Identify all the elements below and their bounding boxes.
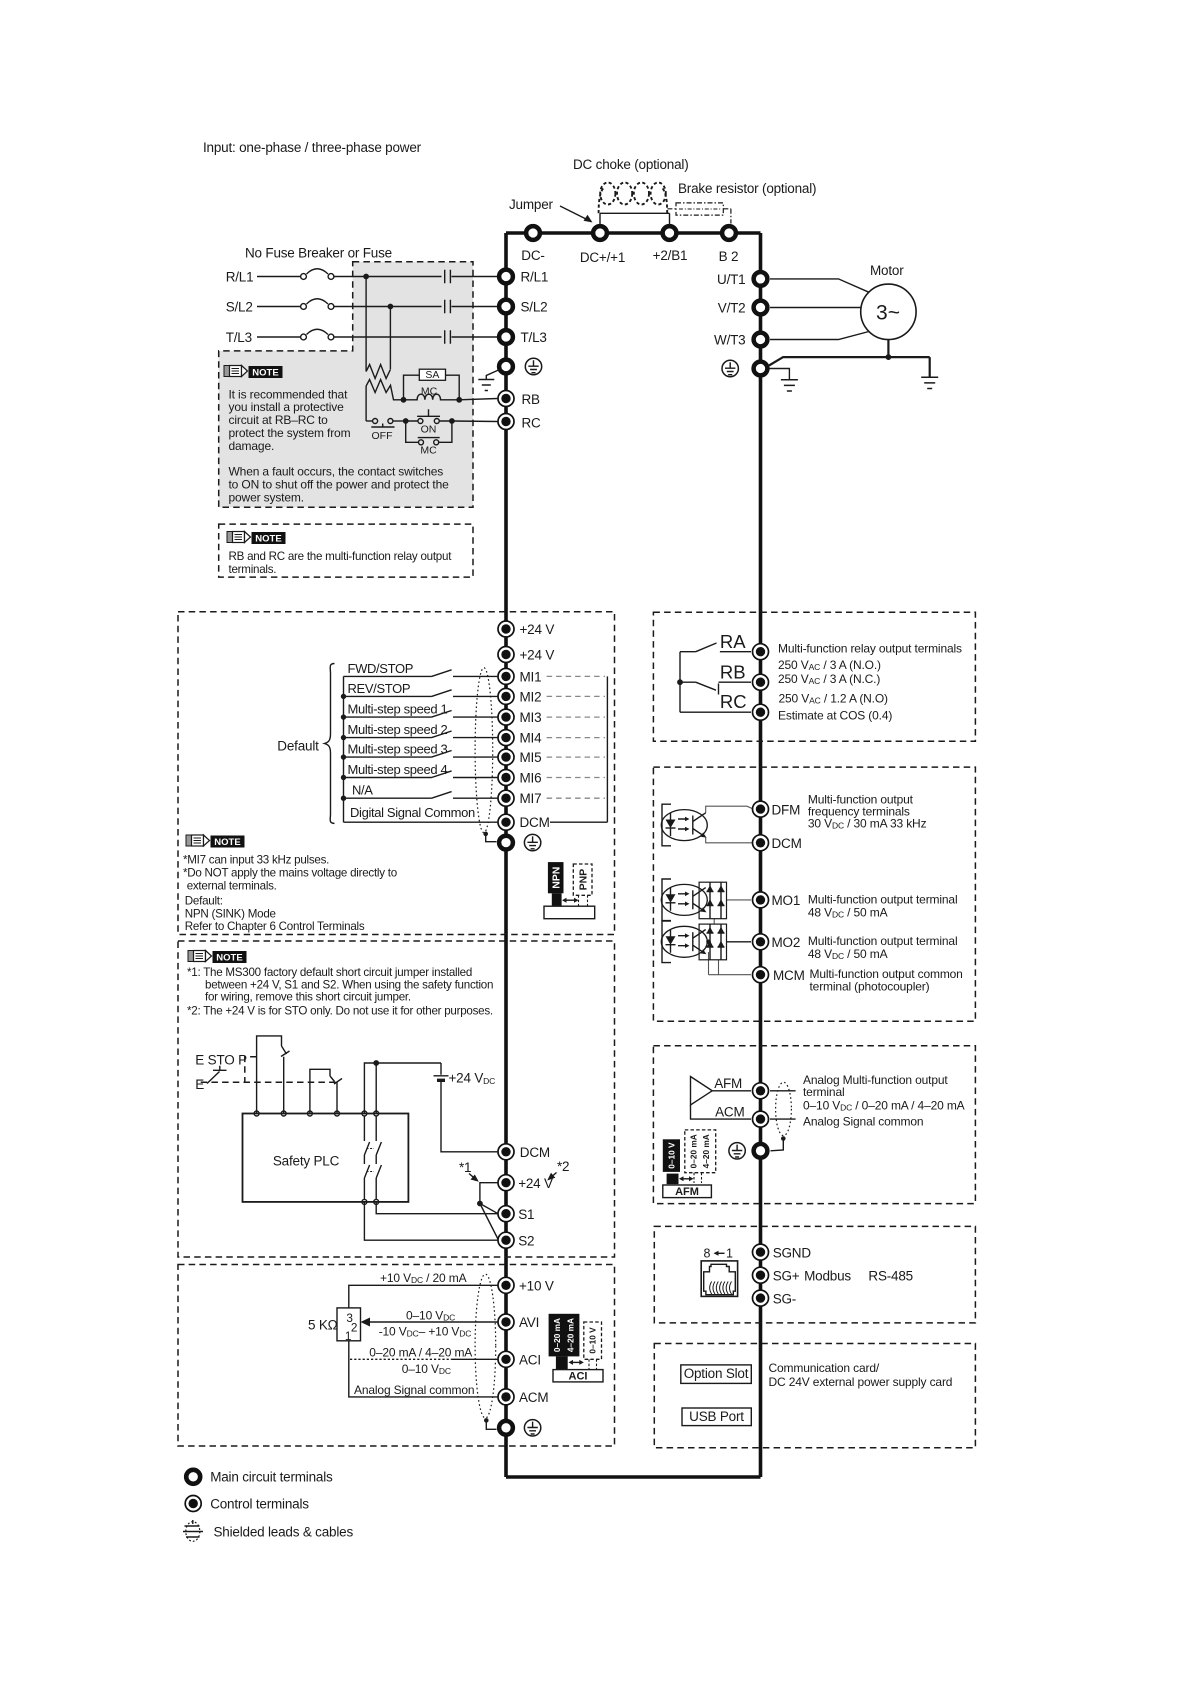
svg-text:T/L3: T/L3 [521, 330, 547, 345]
svg-text:Shielded leads & cables: Shielded leads & cables [214, 1525, 354, 1540]
svg-text:Multi-step speed 1: Multi-step speed 1 [348, 702, 448, 717]
svg-text:S2: S2 [518, 1234, 534, 1249]
svg-text:MO2: MO2 [772, 935, 801, 950]
svg-text:0–10 V: 0–10 V [666, 1142, 676, 1169]
svg-text:*MI7 can input 33 kHz pulses.: *MI7 can input 33 kHz pulses. [183, 854, 329, 867]
svg-text:Digital Signal Common: Digital Signal Common [350, 805, 475, 820]
svg-text:MI7: MI7 [520, 791, 542, 806]
svg-text:250 VAC / 3 A (N.O.): 250 VAC / 3 A (N.O.) [778, 658, 881, 672]
svg-text:NPN: NPN [550, 867, 562, 889]
svg-text:When a fault occurs, the conta: When a fault occurs, the contact switche… [229, 465, 444, 479]
svg-text:*1: The MS300 factory default: *1: The MS300 factory default short circ… [187, 966, 472, 979]
svg-text:terminal (photocoupler): terminal (photocoupler) [810, 980, 930, 994]
svg-text:MO1: MO1 [772, 893, 801, 908]
svg-text:0–10 VDC / 0–20 mA / 4–20 mA: 0–10 VDC / 0–20 mA / 4–20 mA [803, 1099, 965, 1113]
svg-text:RC: RC [522, 416, 542, 431]
svg-text:Brake resistor (optional): Brake resistor (optional) [678, 181, 816, 196]
svg-text:+2/B1: +2/B1 [653, 248, 688, 263]
svg-text:ACI: ACI [569, 1371, 588, 1383]
svg-text:MI1: MI1 [520, 669, 542, 684]
svg-text:DC+/+1: DC+/+1 [580, 250, 625, 265]
svg-text:circuit at RB–RC to: circuit at RB–RC to [229, 413, 329, 427]
svg-text:1: 1 [726, 1246, 733, 1260]
svg-text:Input: one-phase / three-phase: Input: one-phase / three-phase power [203, 140, 422, 155]
svg-text:NPN (SINK) Mode: NPN (SINK) Mode [185, 907, 276, 920]
svg-text:Control terminals: Control terminals [210, 1497, 309, 1512]
svg-text:ACM: ACM [715, 1105, 744, 1120]
svg-text:+24 V: +24 V [520, 648, 555, 663]
svg-text:30 VDC / 30 mA 33 kHz: 30 VDC / 30 mA 33 kHz [808, 817, 927, 831]
svg-text:*2: *2 [557, 1159, 569, 1174]
svg-text:MI2: MI2 [520, 689, 542, 704]
svg-text:AVI: AVI [519, 1315, 539, 1330]
svg-text:Communication card/: Communication card/ [769, 1361, 880, 1375]
svg-text:for wiring, remove this short: for wiring, remove this short circuit ju… [205, 991, 411, 1004]
svg-text:power system.: power system. [229, 491, 304, 505]
svg-text:RB: RB [522, 392, 541, 407]
svg-text:SG-: SG- [773, 1292, 796, 1307]
svg-text:Modbus: Modbus [804, 1269, 851, 1284]
svg-text:RS-485: RS-485 [868, 1269, 913, 1284]
svg-text:MC: MC [420, 445, 437, 457]
svg-text:REV/STOP: REV/STOP [348, 681, 411, 696]
svg-text:S/L2: S/L2 [226, 300, 253, 315]
svg-text:R/L1: R/L1 [226, 270, 254, 285]
svg-text:No Fuse Breaker or Fuse: No Fuse Breaker or Fuse [245, 246, 392, 261]
svg-text:48 VDC / 50 mA: 48 VDC / 50 mA [808, 947, 888, 961]
svg-text:Estimate at COS (0.4): Estimate at COS (0.4) [778, 709, 892, 723]
svg-text:RB and RC are the multi-functi: RB and RC are the multi-function relay o… [229, 550, 453, 563]
svg-text:DCM: DCM [520, 1145, 550, 1160]
svg-text:external terminals.: external terminals. [187, 879, 277, 892]
svg-text:Multi-function output terminal: Multi-function output terminal [808, 893, 958, 907]
svg-text:*Do NOT apply the mains voltag: *Do NOT apply the mains voltage directly… [183, 866, 397, 879]
svg-text:SG+: SG+ [773, 1269, 800, 1284]
svg-text:*1: *1 [459, 1160, 471, 1175]
svg-text:Motor: Motor [870, 263, 904, 278]
svg-text:V/T2: V/T2 [718, 301, 746, 316]
svg-text:Safety PLC: Safety PLC [273, 1154, 340, 1169]
svg-text:MCM: MCM [773, 968, 805, 983]
svg-text:4–20 mA: 4–20 mA [566, 1318, 576, 1352]
svg-text:T/L3: T/L3 [226, 330, 252, 345]
svg-text:to ON to shut off the power an: to ON to shut off the power and protect … [229, 478, 450, 492]
svg-text:you install a protective: you install a protective [229, 400, 345, 414]
svg-text:RC: RC [720, 691, 747, 712]
svg-text:DFM: DFM [772, 803, 801, 818]
svg-text:Jumper: Jumper [509, 197, 554, 212]
svg-text:Main circuit terminals: Main circuit terminals [210, 1470, 333, 1485]
svg-text:DCM: DCM [772, 836, 802, 851]
svg-text:Multi-step speed 4: Multi-step speed 4 [348, 762, 448, 777]
svg-text:Multi-function relay output te: Multi-function relay output terminals [778, 642, 962, 656]
svg-text:PNP: PNP [577, 869, 589, 891]
svg-text:0–20 mA / 4–20 mA: 0–20 mA / 4–20 mA [369, 1346, 472, 1360]
svg-text:0–20 mA: 0–20 mA [688, 1134, 698, 1168]
svg-text:48 VDC / 50 mA: 48 VDC / 50 mA [808, 906, 888, 920]
svg-text:SGND: SGND [773, 1246, 812, 1261]
svg-text:0–20 mA: 0–20 mA [552, 1318, 562, 1352]
svg-text:MI3: MI3 [520, 710, 542, 725]
svg-text:E: E [195, 1077, 204, 1092]
svg-text:Default: Default [277, 739, 319, 754]
svg-text:Multi-function output terminal: Multi-function output terminal [808, 934, 958, 948]
svg-text:5 KΩ: 5 KΩ [308, 1318, 338, 1333]
svg-text:250 VAC / 3 A (N.C.): 250 VAC / 3 A (N.C.) [778, 672, 880, 686]
svg-text:It is recommended that: It is recommended that [229, 387, 349, 401]
svg-text:USB Port: USB Port [689, 1409, 744, 1424]
svg-text:ACI: ACI [519, 1352, 541, 1367]
svg-text:+24 V: +24 V [518, 1176, 553, 1191]
svg-text:250 VAC / 1.2 A (N.O): 250 VAC / 1.2 A (N.O) [779, 692, 889, 706]
svg-text:+10 V: +10 V [519, 1279, 554, 1294]
svg-text:DCM: DCM [520, 815, 550, 830]
svg-text:RB: RB [720, 662, 746, 683]
svg-text:B 2: B 2 [719, 249, 739, 264]
svg-text:OFF: OFF [372, 430, 393, 442]
svg-text:Analog Signal common: Analog Signal common [803, 1115, 923, 1129]
svg-text:N/A: N/A [352, 783, 373, 798]
svg-text:*2: The +24 V is for STO only.: *2: The +24 V is for STO only. Do not us… [187, 1004, 493, 1017]
svg-text:E STO P: E STO P [195, 1053, 247, 1068]
svg-text:protect the system from: protect the system from [229, 426, 351, 440]
svg-text:R/L1: R/L1 [521, 270, 549, 285]
svg-text:+10 VDC / 20 mA: +10 VDC / 20 mA [380, 1271, 467, 1285]
svg-text:between +24 V, S1 and S2. When: between +24 V, S1 and S2. When using the… [205, 978, 493, 991]
svg-text:Analog Signal common: Analog Signal common [354, 1383, 474, 1397]
svg-text:-10 VDC– +10 VDC: -10 VDC– +10 VDC [379, 1325, 472, 1339]
svg-text:DC-: DC- [521, 248, 544, 263]
svg-text:1: 1 [345, 1329, 351, 1343]
svg-text:0–10 V: 0–10 V [588, 1327, 598, 1354]
svg-text:damage.: damage. [229, 439, 275, 453]
svg-text:Default:: Default: [185, 895, 223, 908]
svg-text:Refer to Chapter 6 Control Ter: Refer to Chapter 6 Control Terminals [185, 920, 365, 933]
svg-text:ON: ON [421, 424, 437, 436]
svg-text:+24 V: +24 V [520, 622, 555, 637]
svg-text:DC 24V external power supply c: DC 24V external power supply card [769, 1375, 953, 1389]
svg-text:Multi-step speed 2: Multi-step speed 2 [348, 722, 448, 737]
svg-text:AFM: AFM [714, 1076, 742, 1091]
svg-text:SA: SA [425, 369, 439, 381]
svg-text:MI4: MI4 [520, 731, 543, 746]
svg-text:DC choke (optional): DC choke (optional) [573, 157, 689, 172]
svg-text:AFM: AFM [675, 1186, 699, 1198]
svg-text:S1: S1 [518, 1207, 534, 1222]
svg-text:RA: RA [720, 631, 746, 652]
svg-text:U/T1: U/T1 [717, 272, 745, 287]
svg-text:3~: 3~ [876, 302, 900, 325]
svg-text:MI5: MI5 [520, 750, 542, 765]
svg-text:terminal: terminal [803, 1085, 844, 1099]
svg-text:8: 8 [704, 1246, 711, 1260]
svg-text:2: 2 [351, 1321, 357, 1335]
svg-text:4–20 mA: 4–20 mA [701, 1134, 711, 1168]
svg-text:W/T3: W/T3 [714, 333, 745, 348]
svg-text:Option Slot: Option Slot [684, 1366, 749, 1381]
svg-text:FWD/STOP: FWD/STOP [348, 661, 414, 676]
svg-text:Multi-step speed 3: Multi-step speed 3 [348, 742, 448, 757]
svg-text:S/L2: S/L2 [521, 300, 548, 315]
svg-text:ACM: ACM [519, 1390, 548, 1405]
svg-text:terminals.: terminals. [229, 563, 277, 576]
svg-text:MI6: MI6 [520, 771, 542, 786]
